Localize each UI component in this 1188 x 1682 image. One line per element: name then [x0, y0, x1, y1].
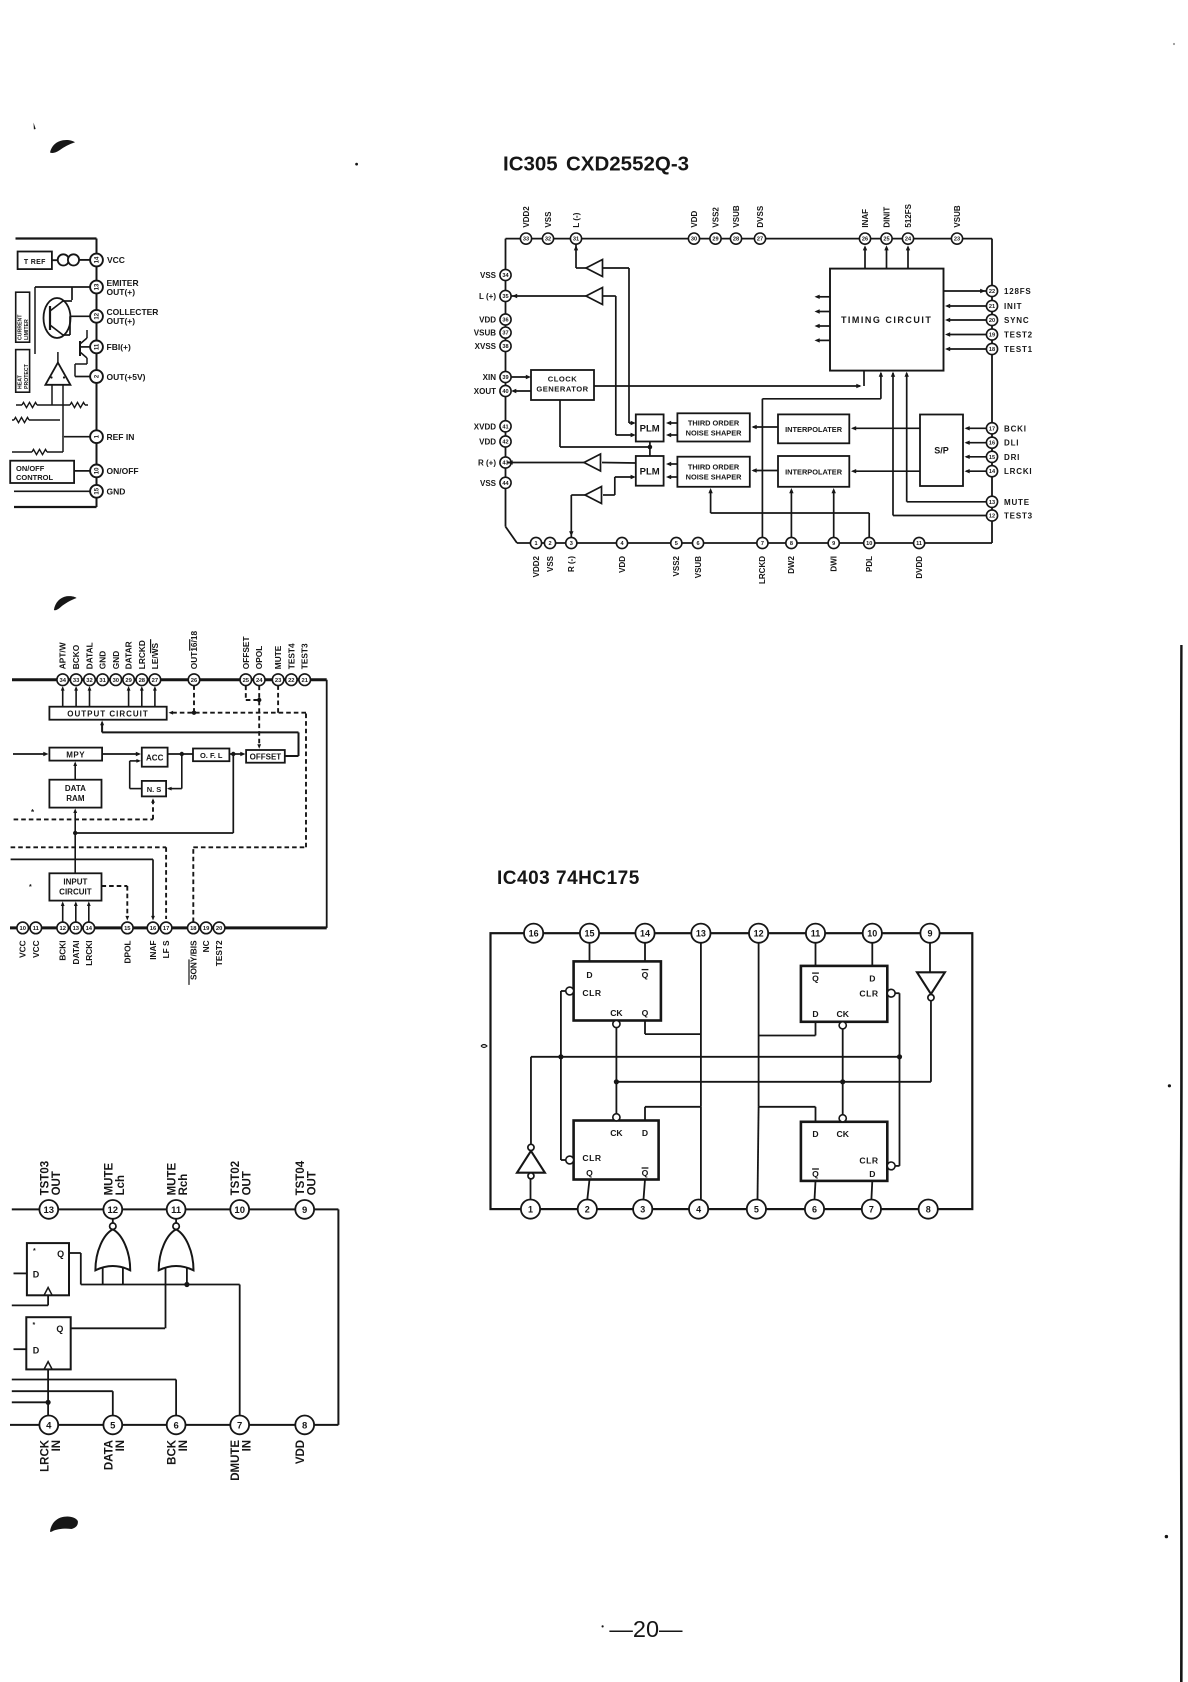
svg-text:19: 19: [989, 333, 995, 339]
svg-text:16: 16: [150, 926, 157, 932]
svg-text:2: 2: [585, 1204, 590, 1214]
svg-text:IC305: IC305: [503, 153, 558, 176]
svg-text:RAM: RAM: [66, 794, 85, 803]
svg-text:THIRD ORDER: THIRD ORDER: [688, 463, 740, 472]
svg-text:BCKO: BCKO: [71, 644, 81, 669]
svg-text:L (+): L (+): [479, 292, 496, 301]
svg-text:DLI: DLI: [1004, 439, 1019, 448]
svg-text:43: 43: [502, 461, 508, 467]
svg-text:LF S: LF S: [161, 940, 171, 958]
svg-text:GENERATOR: GENERATOR: [536, 385, 588, 394]
svg-text:20: 20: [989, 318, 995, 324]
svg-text:9: 9: [832, 541, 835, 547]
svg-text:Q: Q: [642, 970, 649, 980]
svg-text:DMUTE: DMUTE: [230, 1440, 242, 1481]
svg-text:23: 23: [954, 237, 960, 243]
svg-text:5: 5: [675, 541, 678, 547]
svg-text:11: 11: [171, 1205, 182, 1216]
svg-text:3: 3: [570, 541, 573, 547]
svg-text:CK: CK: [610, 1008, 623, 1018]
svg-text:13: 13: [696, 928, 706, 938]
svg-text:GND: GND: [98, 651, 108, 669]
svg-text:CLR: CLR: [859, 989, 878, 999]
svg-text:ACC: ACC: [146, 753, 164, 762]
svg-text:OUT(+): OUT(+): [107, 287, 136, 297]
svg-text:VSS: VSS: [480, 271, 497, 280]
svg-text:8: 8: [302, 1420, 307, 1431]
svg-text:5: 5: [754, 1204, 759, 1214]
svg-text:DWI: DWI: [830, 556, 839, 572]
svg-text:30: 30: [113, 678, 119, 684]
svg-text:CONTROL: CONTROL: [16, 473, 53, 482]
svg-text:Q: Q: [57, 1249, 64, 1259]
svg-text:TEST3: TEST3: [300, 643, 310, 669]
svg-text:CLR: CLR: [859, 1156, 878, 1166]
svg-text:D: D: [586, 970, 592, 980]
svg-text:GND: GND: [107, 487, 126, 497]
svg-text:TEST3: TEST3: [1004, 512, 1033, 521]
svg-text:OFFSET: OFFSET: [250, 753, 282, 762]
svg-text:XVSS: XVSS: [475, 342, 497, 351]
svg-text:*: *: [33, 1248, 36, 1255]
svg-text:INTERPOLATER: INTERPOLATER: [785, 467, 843, 476]
svg-text:CK: CK: [836, 1009, 849, 1019]
svg-text:30: 30: [691, 237, 697, 243]
svg-text:INTERPOLATER: INTERPOLATER: [785, 425, 843, 434]
svg-text:GND: GND: [111, 651, 121, 669]
svg-text:VSUB: VSUB: [694, 556, 703, 578]
svg-text:31: 31: [573, 237, 579, 243]
svg-text:TEST2: TEST2: [1004, 331, 1033, 340]
svg-text:LE/WS: LE/WS: [150, 642, 160, 669]
svg-text:9: 9: [302, 1205, 307, 1216]
svg-text:OUT(+): OUT(+): [107, 316, 136, 326]
svg-text:28: 28: [733, 237, 739, 243]
svg-text:DVDD: DVDD: [915, 556, 924, 579]
svg-text:D: D: [812, 1009, 818, 1019]
svg-text:APT/W: APT/W: [58, 642, 68, 669]
svg-text:PLM: PLM: [640, 424, 660, 435]
svg-text:OUTPUT CIRCUIT: OUTPUT CIRCUIT: [67, 709, 149, 718]
svg-text:D: D: [33, 1270, 40, 1280]
svg-text:D: D: [869, 1169, 875, 1179]
svg-text:PROTECT: PROTECT: [24, 363, 30, 389]
svg-text:IC403: IC403: [497, 868, 550, 889]
svg-text:HEAT: HEAT: [18, 374, 24, 389]
svg-text:VSUB: VSUB: [474, 329, 496, 338]
svg-text:*: *: [29, 884, 32, 891]
svg-text:VDD: VDD: [618, 556, 627, 573]
svg-text:27: 27: [152, 678, 158, 684]
svg-text:Q: Q: [56, 1324, 63, 1334]
svg-text:18: 18: [190, 926, 197, 932]
svg-text:TST02: TST02: [230, 1161, 242, 1196]
svg-text:VSS2: VSS2: [711, 207, 720, 228]
svg-text:CIRCUIT: CIRCUIT: [59, 887, 92, 896]
svg-text:32: 32: [545, 237, 551, 243]
svg-text:TIMING CIRCUIT: TIMING CIRCUIT: [841, 315, 933, 325]
svg-text:Q: Q: [586, 1168, 593, 1178]
svg-text:23: 23: [275, 678, 282, 684]
svg-text:11: 11: [811, 928, 821, 938]
svg-text:13: 13: [73, 926, 80, 932]
svg-text:13: 13: [989, 500, 995, 506]
svg-text:INPUT: INPUT: [63, 877, 87, 886]
svg-text:VDD2: VDD2: [522, 206, 531, 228]
svg-text:NOISE SHAPER: NOISE SHAPER: [686, 473, 743, 482]
svg-text:15: 15: [584, 928, 594, 938]
svg-text:DRI: DRI: [1004, 453, 1020, 462]
svg-text:CLR: CLR: [582, 1153, 601, 1163]
svg-text:12: 12: [754, 928, 764, 938]
svg-text:1: 1: [534, 541, 537, 547]
svg-text:26: 26: [862, 237, 868, 243]
svg-text:THIRD ORDER: THIRD ORDER: [688, 418, 740, 427]
svg-text:OUT: OUT: [242, 1171, 254, 1195]
svg-text:DINIT: DINIT: [882, 207, 891, 228]
svg-text:DVSS: DVSS: [756, 205, 765, 227]
svg-text:24: 24: [256, 678, 263, 684]
svg-text:MPY: MPY: [66, 750, 85, 759]
svg-text:25: 25: [243, 678, 250, 684]
svg-text:Rch: Rch: [178, 1174, 190, 1196]
svg-text:INAF: INAF: [148, 940, 158, 959]
svg-text:VDD2: VDD2: [532, 555, 541, 577]
svg-text:7: 7: [237, 1420, 242, 1431]
svg-text:VCC: VCC: [31, 940, 41, 958]
svg-text:42: 42: [502, 440, 508, 446]
svg-text:1: 1: [528, 1204, 533, 1214]
svg-text:12: 12: [989, 514, 995, 520]
svg-text:L (-): L (-): [572, 212, 581, 227]
svg-text:17: 17: [163, 926, 169, 932]
svg-text:DW2: DW2: [787, 555, 796, 573]
svg-text:7: 7: [869, 1204, 874, 1214]
svg-text:BCKI: BCKI: [58, 940, 68, 960]
svg-text:VCC: VCC: [107, 255, 125, 265]
svg-text:37: 37: [502, 331, 508, 337]
svg-text:Q: Q: [812, 1169, 819, 1179]
svg-text:34: 34: [502, 273, 509, 279]
svg-text:12: 12: [95, 312, 101, 319]
svg-text:TST03: TST03: [39, 1161, 51, 1196]
svg-text:10: 10: [867, 928, 877, 938]
svg-text:Q: Q: [812, 973, 819, 983]
svg-text:TEST4: TEST4: [286, 643, 296, 669]
svg-text:PLM: PLM: [640, 467, 660, 478]
svg-text:20: 20: [216, 926, 222, 932]
svg-text:CK: CK: [836, 1129, 849, 1139]
svg-text:Lch: Lch: [115, 1175, 127, 1195]
svg-text:13: 13: [95, 283, 101, 290]
svg-text:VSS: VSS: [544, 211, 553, 228]
svg-text:DATAR: DATAR: [124, 641, 134, 669]
svg-text:2: 2: [548, 541, 551, 547]
svg-text:14: 14: [86, 926, 93, 932]
svg-text:6: 6: [812, 1204, 817, 1214]
svg-text:BCKI: BCKI: [1004, 424, 1027, 433]
svg-text:18: 18: [989, 347, 995, 353]
svg-text:16: 16: [529, 928, 539, 938]
svg-text:44: 44: [502, 481, 509, 487]
svg-text:8: 8: [790, 541, 793, 547]
svg-text:ON/OFF: ON/OFF: [107, 466, 139, 476]
svg-text:CLR: CLR: [582, 988, 601, 998]
svg-text:OUT16/18: OUT16/18: [189, 631, 199, 670]
svg-text:10: 10: [19, 926, 25, 932]
svg-text:MUTE: MUTE: [167, 1162, 179, 1195]
svg-text:LRCK: LRCK: [39, 1439, 51, 1472]
svg-text:D: D: [33, 1346, 40, 1356]
svg-text:D: D: [642, 1128, 648, 1138]
svg-text:NOISE SHAPER: NOISE SHAPER: [686, 428, 743, 437]
svg-text:512FS: 512FS: [904, 203, 913, 227]
svg-text:3: 3: [640, 1204, 645, 1214]
svg-text:4: 4: [696, 1204, 701, 1214]
svg-text:XOUT: XOUT: [474, 387, 496, 396]
svg-text:8: 8: [926, 1204, 931, 1214]
svg-text:LRCKI: LRCKI: [84, 940, 94, 965]
svg-text:CLOCK: CLOCK: [548, 375, 578, 384]
svg-text:VSUB: VSUB: [953, 205, 962, 227]
svg-text:10: 10: [866, 541, 872, 547]
svg-text:34: 34: [59, 678, 66, 684]
svg-text:128FS: 128FS: [1004, 287, 1032, 296]
svg-text:36: 36: [502, 318, 508, 324]
svg-text:ON/OFF: ON/OFF: [16, 464, 45, 473]
svg-text:—20—: —20—: [609, 1616, 683, 1642]
svg-text:12: 12: [59, 926, 65, 932]
svg-text:25: 25: [883, 237, 889, 243]
svg-text:R (-): R (-): [567, 556, 576, 572]
svg-text:VSS: VSS: [480, 479, 497, 488]
svg-text:4: 4: [46, 1420, 52, 1431]
svg-text:11: 11: [916, 541, 922, 547]
svg-text:13: 13: [44, 1205, 55, 1216]
svg-text:IN: IN: [178, 1440, 190, 1452]
svg-text:21: 21: [989, 304, 995, 310]
svg-text:6: 6: [173, 1420, 178, 1431]
svg-text:VDD: VDD: [690, 210, 699, 227]
svg-text:22: 22: [288, 678, 294, 684]
svg-text:OUT: OUT: [307, 1171, 319, 1195]
svg-text:19: 19: [203, 926, 210, 932]
svg-text:14: 14: [989, 469, 996, 475]
svg-text:INIT: INIT: [1004, 302, 1022, 311]
svg-text:XVDD: XVDD: [474, 422, 496, 431]
svg-text:7: 7: [761, 541, 764, 547]
svg-text:VDD: VDD: [479, 438, 496, 447]
svg-text:24: 24: [905, 237, 912, 243]
svg-text:6: 6: [696, 541, 699, 547]
svg-text:DATAI: DATAI: [71, 940, 81, 964]
svg-text:IN: IN: [51, 1440, 63, 1452]
svg-text:D: D: [812, 1129, 818, 1139]
svg-text:OUT(+5V): OUT(+5V): [107, 372, 146, 382]
svg-text:R (+): R (+): [478, 459, 496, 468]
svg-text:NC: NC: [201, 940, 211, 952]
svg-text:11: 11: [95, 343, 101, 350]
svg-text:33: 33: [73, 678, 80, 684]
svg-text:INAF: INAF: [861, 209, 870, 228]
svg-text:REF IN: REF IN: [107, 432, 135, 442]
svg-text:21: 21: [301, 678, 308, 684]
svg-text:CXD2552Q-3: CXD2552Q-3: [566, 153, 689, 176]
svg-text:LRCKI: LRCKI: [1004, 467, 1032, 476]
svg-text:TST04: TST04: [295, 1160, 307, 1195]
svg-text:22: 22: [989, 289, 995, 295]
svg-text:MUTE: MUTE: [103, 1162, 115, 1195]
svg-text:31: 31: [99, 678, 106, 684]
svg-text:OPOL: OPOL: [254, 646, 264, 670]
svg-text:12: 12: [108, 1205, 119, 1216]
svg-text:38: 38: [502, 344, 508, 350]
svg-text:S/P: S/P: [934, 446, 949, 456]
svg-text:MUTE: MUTE: [273, 645, 283, 669]
svg-text:IN: IN: [242, 1440, 254, 1452]
svg-text:10: 10: [95, 467, 101, 474]
svg-text:15: 15: [989, 455, 995, 461]
svg-text:OFFSET: OFFSET: [241, 636, 251, 669]
svg-text:16: 16: [989, 441, 995, 447]
svg-text:LRCKD: LRCKD: [758, 556, 767, 584]
svg-text:Q: Q: [642, 1168, 649, 1178]
svg-text:14: 14: [640, 928, 650, 938]
svg-text:TEST1: TEST1: [1004, 345, 1033, 354]
svg-text:VSUB: VSUB: [732, 205, 741, 227]
svg-text:DATAL: DATAL: [85, 642, 95, 669]
svg-text:Q: Q: [642, 1008, 649, 1018]
svg-text:FBI(+): FBI(+): [107, 342, 131, 352]
svg-text:MUTE: MUTE: [1004, 498, 1030, 507]
svg-text:15: 15: [124, 926, 131, 932]
svg-text:5: 5: [110, 1420, 116, 1431]
svg-text:29: 29: [712, 237, 718, 243]
svg-text:DATA: DATA: [65, 784, 86, 793]
svg-text:N. S: N. S: [147, 785, 162, 794]
svg-text:14: 14: [95, 256, 101, 263]
svg-text:41: 41: [502, 424, 508, 430]
svg-text:XIN: XIN: [483, 373, 497, 382]
svg-text:T REF: T REF: [24, 259, 46, 266]
svg-text:CURRENT: CURRENT: [18, 314, 24, 340]
svg-text:LRCKD: LRCKD: [137, 640, 147, 669]
svg-text:40: 40: [502, 389, 508, 395]
svg-text:35: 35: [502, 294, 508, 300]
svg-text:SONY/BIS: SONY/BIS: [188, 940, 198, 980]
svg-text:VDD: VDD: [479, 316, 496, 325]
svg-text:17: 17: [989, 426, 995, 432]
svg-text:D: D: [869, 973, 875, 983]
svg-text:BCK: BCK: [167, 1439, 179, 1465]
svg-text:33: 33: [523, 237, 529, 243]
svg-text:CK: CK: [610, 1128, 623, 1138]
svg-text:26: 26: [191, 678, 198, 684]
svg-text:39: 39: [502, 375, 508, 381]
svg-text:OUT: OUT: [51, 1171, 63, 1195]
svg-text:29: 29: [125, 678, 132, 684]
svg-text:28: 28: [139, 678, 146, 684]
svg-text:VCC: VCC: [18, 940, 28, 958]
svg-text:O. F. L: O. F. L: [200, 751, 223, 760]
svg-text:DATA: DATA: [103, 1440, 115, 1470]
svg-text:74HC175: 74HC175: [556, 868, 640, 889]
svg-text:DPOL: DPOL: [122, 940, 132, 963]
svg-text:VDD: VDD: [295, 1440, 307, 1464]
svg-text:*: *: [33, 1322, 36, 1329]
svg-text:11: 11: [33, 926, 40, 932]
svg-text:VSS: VSS: [546, 555, 555, 572]
svg-text:PDL: PDL: [865, 556, 874, 572]
svg-text:LIMITER: LIMITER: [24, 319, 30, 340]
svg-text:27: 27: [757, 237, 763, 243]
svg-text:10: 10: [234, 1205, 245, 1216]
svg-text:15: 15: [95, 487, 101, 494]
svg-text:9: 9: [927, 928, 932, 938]
svg-text:VSS2: VSS2: [672, 555, 681, 576]
svg-text:IN: IN: [115, 1440, 127, 1452]
svg-text:32: 32: [86, 678, 92, 684]
svg-text:TEST2: TEST2: [214, 940, 224, 966]
svg-text:SYNC: SYNC: [1004, 316, 1029, 325]
